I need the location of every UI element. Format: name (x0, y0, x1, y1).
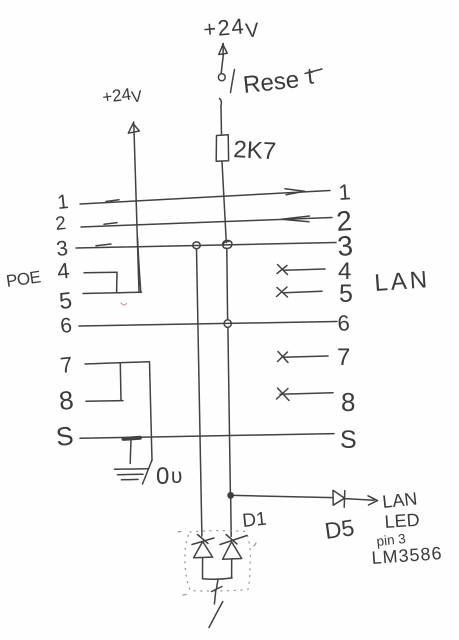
diode D1a anode stub (202, 558, 204, 579)
svg-text:7: 7 (337, 344, 350, 371)
diode D5 triangle (333, 490, 345, 505)
svg-text:Rese: Rese (242, 66, 301, 99)
svg-text:0υ: 0υ (156, 463, 184, 490)
junction node on line 6 (riser B) (224, 320, 231, 328)
svg-text:3: 3 (336, 230, 354, 262)
pin S left letter (54, 420, 74, 452)
wire D5 to arrow (345, 499, 374, 501)
pin 2 left numeral (54, 213, 67, 235)
diode D5 cathode bar (343, 491, 346, 508)
svg-text:LED: LED (384, 510, 420, 532)
pin 4 left numeral (56, 258, 71, 284)
pin 8 right numeral (341, 387, 355, 417)
svg-text:1: 1 (56, 191, 69, 214)
svg-text:+24V: +24V (202, 12, 261, 46)
power arrow (top center) (219, 44, 227, 56)
arrow head on line 2 right (pointing left) (282, 216, 310, 222)
label LED (384, 510, 420, 532)
wire line 1 (80, 191, 330, 205)
switch S1 Reset contact top (218, 74, 225, 81)
diode D1b cathode bar (220, 535, 247, 545)
wire line 6 (79, 322, 337, 327)
wire switch to resistor (220, 107, 223, 135)
svg-text:D5: D5 (323, 514, 356, 544)
wire LAN pin 8 stub (280, 393, 333, 395)
label D1 (241, 509, 267, 532)
label D5 (323, 514, 356, 544)
wire line 8 left stub (86, 400, 123, 403)
wire line 7 left stub (85, 362, 149, 364)
svg-text:LAN: LAN (374, 266, 431, 297)
pin S right letter (340, 426, 357, 454)
wire 7/8 riser down to S (150, 362, 153, 461)
svg-text:POE: POE (5, 267, 42, 291)
LAN pin 8 X mark (277, 388, 290, 401)
svg-text:S: S (54, 420, 74, 452)
LAN pin 5 X mark (277, 287, 288, 297)
switch S1 contact bottom (220, 99, 222, 107)
svg-text:D1: D1 (241, 509, 267, 532)
diode D1a cathode bar (192, 535, 214, 545)
junction node on line 3 (riser A) (193, 242, 201, 249)
wire LAN pin 4 stub (284, 269, 325, 270)
svg-text:5: 5 (339, 280, 353, 308)
label Reset (242, 62, 316, 99)
pin 8 left numeral (57, 385, 75, 416)
pin 7 right numeral (337, 344, 350, 371)
svg-text:4: 4 (56, 258, 71, 284)
wire line 5 left stub (83, 292, 142, 293)
stroke t crossbar (305, 69, 322, 74)
break tick on stem (212, 587, 223, 592)
wire LAN pin 5 stub (284, 291, 322, 293)
wire ground stub (129, 439, 132, 464)
svg-text:8: 8 (57, 385, 75, 416)
pin 4 right numeral (338, 258, 351, 285)
wire riser B (line3 to line6) (226, 249, 229, 320)
diode D1a triangle (194, 542, 213, 558)
stray red mark (121, 303, 127, 305)
svg-text:7: 7 (59, 352, 74, 378)
svg-text:+24V: +24V (101, 83, 143, 110)
node +24V label (top center) (202, 12, 261, 46)
svg-text:t: t (306, 62, 316, 89)
svg-text:1: 1 (338, 179, 352, 205)
wire line 3 (76, 243, 336, 249)
svg-text:LAN: LAN (381, 488, 418, 512)
wire line 2 (81, 218, 332, 228)
pin 3 right numeral (336, 230, 354, 262)
svg-text:8: 8 (341, 387, 355, 417)
svg-text:S: S (340, 426, 357, 454)
pin 3 left numeral (55, 237, 69, 261)
D1 stray dots (178, 532, 256, 596)
svg-text:2K7: 2K7 (233, 136, 277, 165)
pin 5 right numeral (339, 280, 353, 308)
wire switch top (221, 55, 223, 73)
junction node D5 branch (228, 493, 233, 499)
wire D5 branch horizontal (233, 495, 333, 497)
ground symbol (115, 468, 149, 471)
label LAN (led) (381, 488, 418, 512)
label LM3586 (371, 543, 443, 568)
diode D1b triangle (223, 542, 242, 559)
label 2K7 (233, 136, 277, 165)
pin 6 right numeral (337, 310, 351, 336)
label LAN (374, 266, 431, 297)
LAN pin 7 X mark (278, 352, 289, 363)
wire riser B (D5 node to D1 right) (230, 498, 233, 537)
svg-text:6: 6 (337, 310, 351, 336)
switch S1 lever (231, 70, 235, 93)
off-page flick (209, 602, 223, 628)
pin 2 right numeral (335, 205, 353, 237)
label POE (5, 267, 42, 291)
wire D1 common stem (214, 580, 218, 605)
wire line 7 to line 8 drop (119, 364, 122, 401)
junction blob S/ground (124, 438, 141, 439)
power arrow (left) (128, 122, 139, 133)
wire line S (80, 434, 334, 439)
arrow barb on line 2 left (104, 223, 117, 225)
label 0V with slash (143, 460, 153, 484)
LAN pin 4 X mark (277, 265, 288, 275)
pin 5 left numeral (58, 287, 73, 314)
svg-text:LM3586: LM3586 (371, 543, 443, 568)
wire riser B (line6 to D5 node) (228, 328, 231, 495)
D1 dashed enclosure (185, 531, 250, 591)
pin 1 left numeral (56, 191, 69, 214)
svg-text:5: 5 (58, 287, 73, 314)
wire D1 anode join (203, 578, 233, 579)
wire +24V riser (left, double stroke) (134, 124, 139, 293)
pin 7 left numeral (59, 352, 74, 378)
arrow head on line 1 right (285, 189, 305, 195)
label pin 3 (376, 531, 407, 549)
pin 6 left numeral (59, 314, 73, 338)
wire resistor to line3 (222, 162, 226, 243)
wire line 4 left stub (84, 271, 117, 274)
arrow barb on line 3 left (96, 244, 111, 246)
diode D1b anode stub (231, 559, 233, 577)
svg-text:2: 2 (54, 213, 67, 235)
wire line 4 drop (116, 272, 118, 292)
resistor R1 body (216, 135, 228, 161)
pin 1 right numeral (338, 179, 352, 205)
arrow head LAN LED (368, 496, 378, 505)
svg-text:6: 6 (59, 314, 73, 338)
junction node on line 3 (riser B) (223, 240, 232, 248)
wire LAN pin 7 stub (282, 356, 328, 357)
wire riser A (line3 to D1 left) (197, 249, 202, 536)
arrow barb on line 1 left (106, 200, 119, 202)
node +24V label (left) (101, 83, 143, 110)
